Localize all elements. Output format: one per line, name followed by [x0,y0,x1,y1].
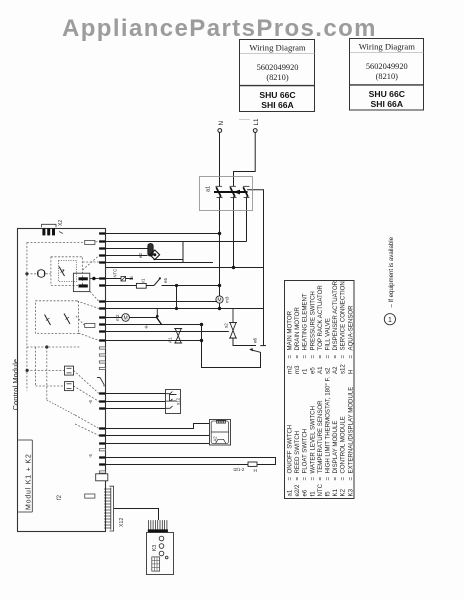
svg-text:e2: e2 [138,252,143,258]
svg-text:SHU 66C: SHU 66C [369,89,405,99]
svg-text:H: H [254,468,257,473]
svg-text:NTC: NTC [317,483,324,496]
svg-text:1: 1 [388,317,392,324]
svg-text:e5: e5 [309,367,316,374]
svg-text:=: = [309,477,316,481]
svg-text:N: N [218,121,225,125]
svg-text:EXTERNAL/DISPLAY MODULE: EXTERNAL/DISPLAY MODULE [347,387,354,474]
svg-text:s2: s2 [224,323,229,328]
svg-text:X2: X2 [58,220,64,226]
svg-text:TOP RACK ACTUATOR: TOP RACK ACTUATOR [317,285,324,351]
svg-text:Wiring Diagram: Wiring Diagram [249,43,306,53]
svg-text:5602049920: 5602049920 [257,63,299,72]
svg-text:CONTROL MODULE: CONTROL MODULE [340,416,347,473]
svg-text:=: = [302,355,309,359]
svg-text:K3: K3 [152,545,158,551]
svg-text:FILL VALVE: FILL VALVE [325,318,332,350]
svg-text:=: = [347,477,354,481]
svg-text:DRAIN MOTOR: DRAIN MOTOR [294,307,301,351]
svg-text:a1: a1 [206,186,212,192]
svg-text:s2: s2 [325,367,332,374]
svg-text:m2: m2 [115,314,120,321]
svg-text:Wiring Diagram: Wiring Diagram [359,42,416,52]
svg-text:DISPLAY MODULE: DISPLAY MODULE [332,421,339,474]
svg-text:(8210): (8210) [376,72,399,81]
svg-text:e6: e6 [302,489,309,496]
svg-text:e6: e6 [253,337,258,343]
svg-text:A1: A1 [168,337,173,343]
svg-text:r1: r1 [302,368,309,374]
svg-text:-6: -6 [88,400,93,404]
svg-text:=: = [294,477,301,481]
svg-text:K2: K2 [340,488,347,496]
svg-text:Control Module: Control Module [11,359,20,411]
svg-text:=: = [317,355,324,359]
svg-text:– If equipment is available: – If equipment is available [388,236,395,307]
svg-text:=: = [287,355,294,359]
svg-text:SHI 66A: SHI 66A [261,100,293,110]
svg-text:=: = [340,477,347,481]
svg-text:=: = [332,477,339,481]
svg-text:=: = [294,355,301,359]
svg-text:f2: f2 [57,494,63,500]
svg-text:-5: -5 [88,454,93,458]
svg-text:MAIN MOTOR: MAIN MOTOR [287,310,294,350]
svg-text:HIGH LIMIT THERMOSTAT, 180° F.: HIGH LIMIT THERMOSTAT, 180° F. [325,376,332,473]
svg-text:=: = [340,355,347,359]
svg-text:A1: A1 [317,366,324,374]
svg-text:Modul K1 + K2: Modul K1 + K2 [26,453,33,510]
svg-text:f5: f5 [129,276,134,280]
svg-text:SERVICE CONNECTION: SERVICE CONNECTION [340,281,347,350]
svg-text:TEMPERATURE SENSOR: TEMPERATURE SENSOR [317,400,324,474]
svg-text:m3: m3 [225,296,230,303]
svg-text:r1: r1 [141,278,146,282]
svg-text:t2/1-2: t2/1-2 [234,467,245,472]
svg-text:SHU 66C: SHU 66C [259,90,295,100]
svg-text:=: = [287,477,294,481]
svg-text:a1: a1 [287,489,294,496]
svg-text:L1: L1 [253,118,260,125]
svg-text:5602049920: 5602049920 [366,62,408,71]
svg-text:DISPENSER ACTUATOR: DISPENSER ACTUATOR [332,280,339,350]
svg-text:M: M [217,298,221,304]
svg-text:A2: A2 [213,436,218,442]
svg-text:=: = [347,355,354,359]
svg-text:=: = [317,477,324,481]
svg-text:=: = [302,477,309,481]
svg-text:REED SWITCH: REED SWITCH [294,431,301,474]
svg-text:e2/2: e2/2 [294,484,301,496]
svg-text:K3: K3 [347,488,354,496]
svg-text:M: M [124,316,128,322]
svg-text:WATER LEVEL SWITCH: WATER LEVEL SWITCH [309,406,316,474]
svg-text:s12: s12 [340,364,347,374]
svg-text:s12: s12 [176,397,181,405]
svg-text:f1: f1 [309,491,316,497]
svg-text:K1: K1 [332,488,339,496]
svg-text:X12: X12 [119,518,125,527]
svg-text:FLOAT SWITCH: FLOAT SWITCH [302,429,309,474]
svg-text:=: = [332,355,339,359]
svg-text:HEATING ELEMENT: HEATING ELEMENT [302,293,309,350]
svg-text:f5: f5 [325,491,332,497]
svg-text:SHI 66A: SHI 66A [371,99,403,109]
svg-text:ON/OFF SWITCH: ON/OFF SWITCH [287,425,294,474]
svg-text:m3: m3 [294,365,301,374]
svg-text:H: H [347,370,354,374]
svg-text:=: = [325,477,332,481]
svg-text:m2: m2 [287,365,294,374]
svg-text:AQUA-SENSOR: AQUA-SENSOR [347,305,354,351]
svg-text:e5: e5 [163,278,168,283]
svg-text:=: = [325,355,332,359]
svg-text:NTC: NTC [113,269,118,278]
svg-text:A2: A2 [332,366,339,374]
svg-text:AppliancePartsPros.com: AppliancePartsPros.com [62,15,377,42]
svg-text:PRESSURE SWITCH: PRESSURE SWITCH [309,291,316,350]
svg-text:(8210): (8210) [266,73,289,82]
svg-text:=: = [309,355,316,359]
